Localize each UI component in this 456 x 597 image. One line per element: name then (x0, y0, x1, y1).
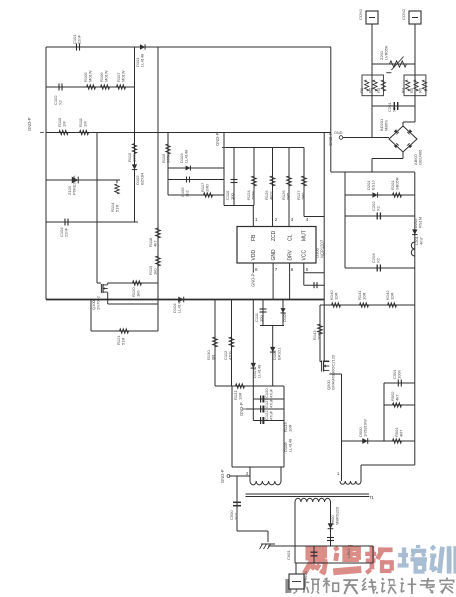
svg-text:1M: 1M (83, 121, 88, 127)
svg-text:470n: 470n (228, 351, 233, 360)
svg-text:GND-P: GND-P (220, 469, 225, 483)
svg-text:R6: R6 (418, 87, 423, 93)
svg-text:100k: 100k (132, 153, 137, 162)
svg-text:LL4148: LL4148 (184, 149, 189, 163)
svg-text:GND-P: GND-P (27, 117, 32, 131)
svg-text:LL4148: LL4148 (257, 364, 262, 378)
svg-text:X2: X2 (376, 205, 381, 211)
svg-text:1k0: 1k0 (136, 290, 141, 297)
svg-text:51R: 51R (115, 205, 120, 212)
svg-text:X2: X2 (58, 99, 63, 105)
svg-text:M01W: M01W (104, 70, 109, 82)
svg-text:GND-P: GND-P (251, 273, 256, 287)
svg-text:M01W: M01W (121, 70, 126, 82)
svg-text:R3: R3 (376, 87, 381, 93)
svg-text:RS1M: RS1M (418, 217, 423, 228)
svg-text:CON1: CON1 (358, 8, 363, 20)
svg-text:NCP1207: NCP1207 (319, 239, 324, 258)
svg-text:X2: X2 (392, 106, 397, 112)
svg-text:10R: 10R (317, 333, 322, 340)
svg-text:CON2: CON2 (401, 8, 406, 20)
svg-text:D105: D105 (282, 312, 287, 322)
svg-text:4: 4 (306, 217, 309, 222)
svg-text:SB05R: SB05R (395, 177, 400, 190)
svg-text:2: 2 (246, 471, 249, 476)
svg-text:LL4148: LL4148 (177, 299, 182, 313)
svg-text:10R: 10R (390, 293, 395, 300)
svg-text:R4: R4 (401, 87, 406, 93)
svg-text:4R7: 4R7 (399, 429, 404, 437)
svg-text:FB: FB (251, 234, 257, 241)
svg-text:GND: GND (334, 131, 343, 135)
svg-text:MBRS320: MBRS320 (335, 506, 340, 525)
svg-text:2n2: 2n2 (234, 513, 239, 520)
svg-text:T1: T1 (369, 495, 375, 500)
svg-text:100n: 100n (397, 370, 402, 379)
svg-text:4k02: 4k02 (269, 191, 274, 200)
svg-text:1: 1 (337, 471, 340, 476)
svg-text:C601: C601 (286, 550, 291, 560)
svg-text:VDD: VDD (251, 250, 257, 261)
svg-text:GPAM6980OC2120: GPAM6980OC2120 (331, 354, 336, 390)
svg-text:MB6S: MB6S (384, 120, 389, 131)
svg-text:GND-P: GND-P (328, 132, 333, 146)
svg-text:CL: CL (287, 234, 293, 241)
svg-text:2n2: 2n2 (185, 190, 190, 197)
svg-text:1R0: 1R0 (301, 192, 306, 200)
svg-text:BAS21: BAS21 (277, 347, 282, 360)
svg-text:LL4148: LL4148 (288, 438, 293, 452)
svg-text:22nF: 22nF (77, 34, 82, 44)
svg-text:GND-P: GND-P (215, 132, 220, 146)
svg-text:DRV: DRV (287, 249, 293, 260)
svg-text:R2: R2 (368, 87, 373, 93)
svg-text:1k0: 1k0 (153, 268, 158, 275)
svg-text:5: 5 (306, 267, 309, 272)
svg-text:VCC: VCC (302, 250, 308, 261)
svg-text:MUT: MUT (302, 230, 308, 241)
svg-text:ZCD: ZCD (271, 230, 277, 241)
svg-text:47uF: 47uF (269, 410, 274, 420)
svg-text:4k7: 4k7 (153, 240, 158, 247)
svg-text:2N7002: 2N7002 (96, 295, 101, 310)
svg-text:22nF: 22nF (64, 227, 69, 237)
svg-text:X2: X2 (376, 257, 381, 263)
svg-text:GND-P: GND-P (239, 402, 244, 416)
svg-text:GBU406: GBU406 (418, 149, 423, 165)
svg-text:10R: 10R (362, 293, 367, 300)
svg-text:1M: 1M (62, 121, 67, 127)
svg-text:6: 6 (291, 267, 294, 272)
svg-text:7: 7 (275, 267, 278, 272)
svg-text:M01W: M01W (88, 70, 93, 82)
svg-text:4k7: 4k7 (395, 394, 400, 401)
svg-text:47uF: 47uF (269, 398, 274, 408)
svg-text:P6KE200A: P6KE200A (72, 175, 77, 195)
svg-text:10u: 10u (259, 315, 264, 322)
svg-text:10R: 10R (238, 393, 243, 400)
svg-text:47uF: 47uF (269, 388, 274, 398)
svg-text:ES1J: ES1J (371, 180, 376, 190)
svg-text:BZX84: BZX84 (140, 172, 145, 185)
svg-text:LVR05K: LVR05K (384, 45, 389, 60)
svg-text:1N5819W: 1N5819W (363, 419, 368, 437)
svg-text:2: 2 (275, 217, 278, 222)
svg-text:100k: 100k (166, 154, 171, 163)
svg-text:1: 1 (255, 217, 258, 222)
svg-text:0R5: 0R5 (286, 192, 291, 200)
svg-text:4k99: 4k99 (251, 191, 256, 200)
svg-text:C602: C602 (346, 548, 351, 558)
svg-text:GND: GND (271, 249, 277, 261)
svg-text:3: 3 (291, 217, 294, 222)
svg-text:R1: R1 (359, 87, 364, 93)
svg-text:51R: 51R (121, 338, 126, 345)
svg-text:10R: 10R (334, 293, 339, 300)
svg-text:1n0: 1n0 (230, 193, 235, 200)
svg-text:8: 8 (255, 267, 258, 272)
svg-text:0R: 0R (211, 355, 216, 360)
svg-text:R5: R5 (409, 87, 414, 93)
svg-text:LL4148: LL4148 (140, 53, 145, 67)
svg-text:4m7: 4m7 (419, 236, 424, 245)
svg-text:1M0: 1M0 (205, 183, 210, 192)
svg-text:10R: 10R (288, 425, 293, 432)
